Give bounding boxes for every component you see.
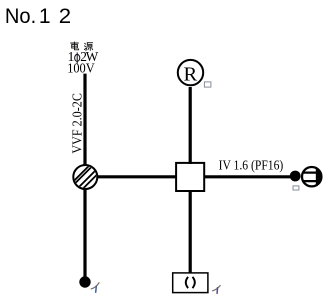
label ro (right) xyxy=(293,186,299,190)
svg-text:IV 1.6 (PF16): IV 1.6 (PF16) xyxy=(219,158,284,173)
label i (at ceiling rose) xyxy=(213,286,221,294)
svg-text:VVF 2.0-2C: VVF 2.0-2C xyxy=(71,93,86,154)
wire: power feed (VVF 2.0-2C) xyxy=(83,74,86,167)
lamp receptacle R xyxy=(178,60,203,86)
junction box (hatched circle) xyxy=(73,164,99,190)
label 源 (power source kanji "gen") xyxy=(84,43,92,51)
switch dot i (left) xyxy=(79,276,90,287)
svg-text:1: 1 xyxy=(39,5,51,28)
wire: outlet box up to lamp receptacle xyxy=(189,87,192,164)
wire: junction box down to switch xyxy=(83,188,86,277)
wall outlet (konsento) xyxy=(302,167,322,186)
wire: junction box to outlet box xyxy=(97,175,177,178)
svg-text:R: R xyxy=(184,64,198,86)
label ro (at R) xyxy=(204,82,211,87)
ceiling rose (rect with parens) xyxy=(173,273,208,293)
svg-text:No.: No. xyxy=(5,5,36,28)
title text "No. 12" xyxy=(5,4,71,28)
outlet box (square) xyxy=(176,163,204,191)
wire: outlet box down to ceiling rose xyxy=(189,191,192,273)
label 電 (power source kanji "den") xyxy=(71,42,79,50)
switch dot ro (right) xyxy=(290,171,301,182)
wire: outlet box to receptacle (IV 1.6 PF16) xyxy=(204,175,291,178)
svg-text:100V: 100V xyxy=(67,61,95,76)
svg-text:2: 2 xyxy=(59,4,71,28)
label i (at switch) xyxy=(91,283,99,293)
